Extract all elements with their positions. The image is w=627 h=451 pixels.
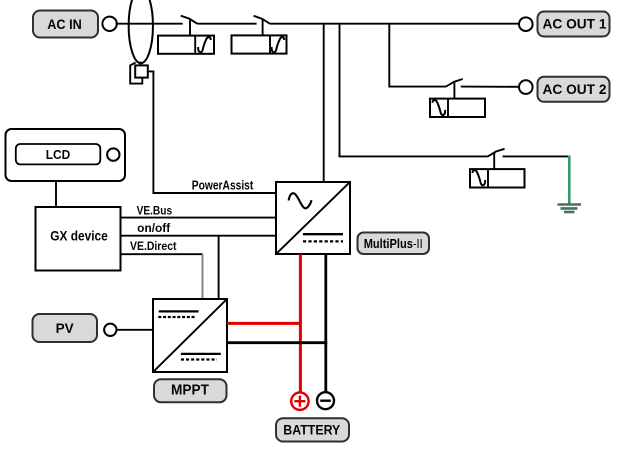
switch S3 (AC OUT 2 relay contact) (446, 79, 463, 99)
wire: on/off branch to MPPT (218, 236, 220, 299)
svg-text:PowerAssist: PowerAssist (192, 178, 254, 192)
switch S4 (ground relay contact) (488, 149, 505, 169)
svg-text:MPPT: MPPT (171, 382, 209, 399)
AC OUT 2 label (538, 77, 610, 102)
svg-text:LCD: LCD (46, 147, 71, 162)
wire: bus branch to ground relay switch (340, 24, 488, 157)
AC OUT 1 terminal (519, 17, 533, 31)
wire: battery negative (324, 254, 327, 392)
svg-text:MultiPlus-II: MultiPlus-II (364, 237, 423, 251)
relay K4 coil box (470, 169, 525, 187)
switch S1 (input relay contact) (181, 16, 198, 36)
ground (earth) symbol (558, 205, 582, 213)
wire: VE.Bus GX to MultiPlus (121, 217, 276, 219)
wire: AC IN terminal to switch S1 (116, 23, 183, 25)
wire: S4 to earth drop (503, 155, 570, 157)
wire: S1 to S2 (197, 23, 256, 25)
svg-text:PV: PV (56, 320, 75, 336)
PV terminal (104, 324, 116, 336)
CT1 clamp block (130, 62, 148, 84)
wire: earth drop (green) (568, 156, 571, 204)
PV label (33, 314, 98, 342)
svg-text:AC OUT 1: AC OUT 1 (543, 16, 607, 32)
MPPT solar charger U2 (153, 299, 227, 372)
battery positive terminal (291, 393, 308, 410)
wire: LCD to GX device (55, 181, 57, 207)
svg-text:BATTERY: BATTERY (283, 423, 340, 438)
relay K3 coil box (430, 99, 485, 117)
svg-text:VE.Direct: VE.Direct (130, 241, 177, 253)
relay K2 coil box (232, 35, 287, 53)
GX device (36, 207, 121, 271)
relay K1 coil box (158, 36, 214, 54)
wire: MPPT negative output (227, 341, 327, 344)
MultiPlus-II inverter/charger U1 (276, 182, 350, 254)
switch S2 (input relay contact) (254, 16, 270, 36)
wire: CT1 signal to PowerAssist input (148, 71, 276, 193)
wire: AC bus S2 to AC OUT 1 terminal (270, 23, 519, 25)
wire: VE.Direct GX to corner (121, 253, 203, 255)
wire: on/off GX to MultiPlus (121, 235, 276, 237)
current transformer CT1 (129, 0, 153, 63)
AC IN label (33, 11, 98, 38)
LCD display module (6, 129, 126, 181)
BATTERY label (276, 418, 349, 441)
svg-text:GX device: GX device (50, 228, 108, 243)
svg-text:on/off: on/off (137, 223, 170, 235)
wire: S3 to AC OUT 2 terminal (461, 86, 519, 88)
wire: AC bus to MultiPlus AC input (323, 24, 325, 182)
wire: bus branch to AC OUT 2 switch (389, 24, 446, 87)
wire: MPPT positive output (red) (227, 322, 302, 325)
svg-text:VE.Bus: VE.Bus (137, 205, 173, 217)
MultiPlus-II reference label (358, 233, 430, 255)
wire: VE.Direct drop to MPPT (grey) (202, 254, 204, 299)
AC OUT 2 terminal (519, 80, 533, 94)
AC OUT 1 label (538, 12, 610, 37)
wire: battery positive (red) (299, 254, 302, 392)
AC IN terminal (102, 17, 116, 31)
svg-text:AC IN: AC IN (47, 16, 82, 32)
wire: PV terminal to MPPT (117, 329, 154, 331)
battery negative terminal (317, 392, 334, 409)
MPPT reference label (154, 379, 227, 402)
svg-text:AC OUT 2: AC OUT 2 (543, 81, 607, 97)
